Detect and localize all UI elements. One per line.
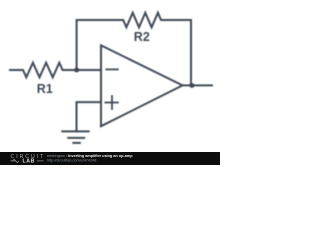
svg-text:R1: R1: [37, 82, 53, 96]
svg-text:LAB: LAB: [23, 159, 35, 165]
svg-text:R2: R2: [134, 30, 150, 44]
svg-text:eedrington / Inverting amplifi: eedrington / Inverting amplifier using a…: [47, 154, 133, 158]
svg-text:http://circuitlab.com/c/474248: http://circuitlab.com/c/474248: [47, 158, 96, 162]
